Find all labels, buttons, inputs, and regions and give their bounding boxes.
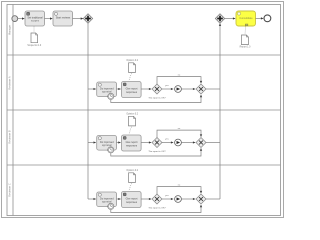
wire T3 to end event	[256, 17, 264, 19]
exclusive gateway GB2	[196, 84, 206, 94]
svg-text:Scope list 1.0: Scope list 1.0	[27, 44, 42, 47]
lane divider 2-3	[7, 109, 281, 111]
svg-text:Reviewer B: Reviewer B	[8, 130, 12, 144]
task T1	[25, 11, 45, 26]
svg-text:Give report: Give report	[126, 88, 138, 91]
task A2 (review)	[97, 82, 117, 97]
svg-text:Report 1.0: Report 1.0	[240, 46, 251, 49]
wire start to task T1	[18, 18, 25, 20]
wire trunk branch into task A2	[88, 88, 96, 90]
parallel split gateway G1	[83, 14, 92, 23]
wire T2 to split gateway	[73, 18, 84, 20]
lane divider 1-2	[7, 54, 281, 56]
task T3 (highlighted yellow)	[236, 11, 256, 26]
svg-text:Opinion 0.2: Opinion 0.2	[126, 60, 138, 62]
wire A2 to B2	[117, 88, 121, 90]
wire GB2 to trunk	[206, 88, 220, 90]
data object DR2	[126, 60, 138, 73]
lane label column line	[12, 5, 14, 216]
svg-text:scopes: scopes	[31, 20, 40, 23]
wire B2 to gateway GA2	[141, 88, 151, 90]
wire GA2 to event E2, label yes	[162, 88, 173, 90]
association T3 to D2	[244, 27, 247, 35]
svg-text:Start reviews: Start reviews	[56, 17, 71, 20]
data object D1	[27, 33, 42, 47]
wire T1 to T2	[45, 18, 53, 20]
start event	[12, 16, 18, 22]
svg-text:The report is OK?: The report is OK?	[148, 96, 166, 99]
intermediate send event E2	[175, 86, 182, 93]
wire loop over (no branch)	[157, 77, 201, 84]
end event	[264, 15, 271, 22]
task B2 (rework)	[122, 82, 142, 98]
exclusive gateway GA2	[148, 84, 166, 99]
association DR2 to B2	[129, 73, 132, 81]
svg-text:responses: responses	[126, 91, 138, 94]
trunk wire up into G2	[219, 24, 221, 199]
svg-text:Consolidate: Consolidate	[239, 17, 253, 20]
data object D2	[240, 35, 251, 49]
task T2	[53, 11, 73, 26]
parallel join gateway G2	[215, 14, 224, 23]
wire G2 to yellow task	[225, 18, 236, 20]
svg-text:Reviewer A: Reviewer A	[8, 76, 12, 89]
wire E2 to gateway GB2	[182, 88, 196, 90]
lane 4 review row (same motif as lane 2)	[88, 170, 220, 213]
wire loop under from boundary timer	[111, 95, 201, 103]
boundary timer event on A2	[108, 93, 114, 99]
svg-text:Manager: Manager	[8, 25, 12, 35]
association T1 to D1	[33, 27, 35, 33]
svg-text:Reviewer C: Reviewer C	[8, 183, 12, 197]
lane 3 review row (same motif as lane 2)	[88, 113, 220, 156]
lane divider 3-4	[7, 164, 281, 166]
trunk wire down from G1	[87, 23, 89, 199]
pool border	[7, 5, 281, 216]
outer frame	[2, 2, 284, 218]
